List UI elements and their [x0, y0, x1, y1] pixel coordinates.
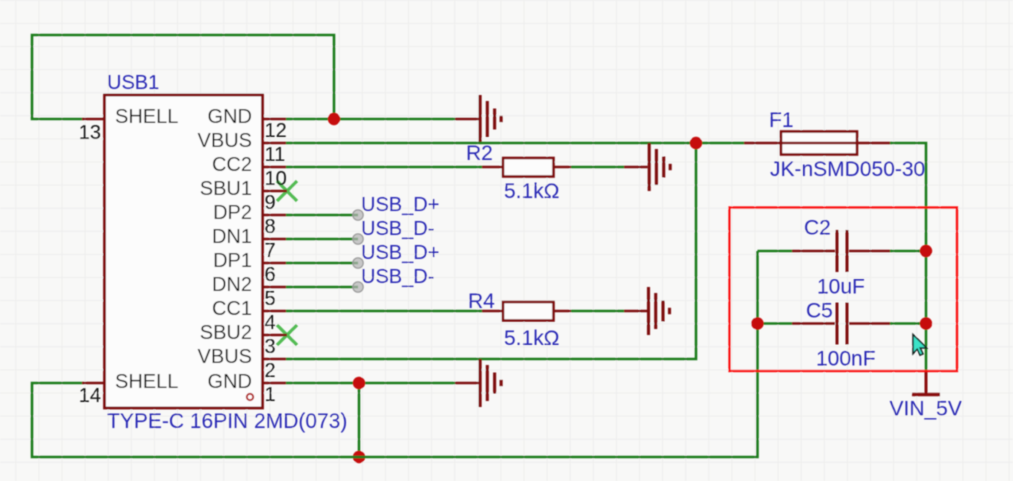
wire: pin10 CC2 to R2 — [286, 166, 482, 169]
svg-text:DP2: DP2 — [213, 202, 252, 224]
svg-text:USB_D-: USB_D- — [361, 266, 434, 288]
fuse F1 — [744, 132, 890, 155]
node junction on GND wire — [328, 113, 340, 125]
wire: pin4 CC1 to R4 — [286, 310, 482, 313]
wire: pin8 DP2 net USB_D+ — [286, 214, 358, 217]
pin1 polarity circle — [247, 394, 253, 400]
unconnected wire-end dot pin6 — [353, 258, 363, 268]
node junction C2 right — [920, 245, 932, 257]
wire: VBUS vertical down to pin2 — [286, 143, 696, 359]
svg-text:SBU2: SBU2 — [200, 322, 252, 344]
svg-text:GND: GND — [208, 106, 252, 128]
svg-text:CC1: CC1 — [212, 298, 252, 320]
no-connect X pin3 SBU2 — [277, 325, 297, 345]
svg-text:C2: C2 — [804, 217, 831, 240]
svg-text:9: 9 — [265, 192, 276, 214]
svg-text:JK-nSMD050-30: JK-nSMD050-30 — [770, 158, 925, 181]
node junction pin1 — [353, 377, 365, 389]
svg-text:10: 10 — [265, 168, 287, 190]
svg-text:3: 3 — [265, 336, 276, 358]
svg-text:VBUS: VBUS — [198, 346, 252, 368]
wire: pin14 SHELL bottom loop to cap rail — [32, 251, 758, 457]
svg-text:R2: R2 — [466, 142, 493, 165]
wire: R4 to ground — [571, 310, 624, 313]
svg-text:6: 6 — [265, 264, 276, 286]
wire: R2 to ground — [571, 166, 624, 169]
wire: pin5 DN2 net USB_D- — [286, 286, 358, 289]
svg-text:SBU1: SBU1 — [200, 178, 252, 200]
wire: pin7 DN1 net USB_D- — [286, 238, 358, 241]
svg-text:11: 11 — [265, 144, 286, 166]
mouse cursor — [913, 335, 927, 356]
svg-text:CC2: CC2 — [212, 154, 252, 176]
power flag VIN_5V — [912, 371, 940, 395]
svg-text:12: 12 — [265, 120, 287, 142]
no-connect X pin9 SBU1 — [277, 181, 297, 201]
pin 13 stub — [82, 118, 105, 121]
resistor R4 — [482, 302, 571, 321]
svg-text:USB_D+: USB_D+ — [361, 242, 439, 264]
wire: pin6 DP1 net USB_D+ — [286, 262, 358, 265]
ground (pin1 GND) — [455, 359, 501, 407]
svg-text:TYPE-C 16PIN 2MD(073): TYPE-C 16PIN 2MD(073) — [107, 410, 347, 433]
svg-text:VIN_5V: VIN_5V — [890, 398, 962, 421]
svg-text:13: 13 — [79, 122, 101, 144]
svg-text:SHELL: SHELL — [115, 106, 178, 128]
component USB1 body — [105, 95, 263, 408]
svg-text:5.1kΩ: 5.1kΩ — [504, 180, 559, 203]
left pin numbers — [79, 122, 101, 407]
svg-text:DP1: DP1 — [213, 250, 252, 272]
ground (pin12 GND) — [455, 95, 501, 143]
wire: pin1 GND to ground — [286, 382, 455, 385]
wire: pin13 SHELL top loop to GND net — [32, 35, 334, 119]
svg-text:DN2: DN2 — [212, 274, 252, 296]
unconnected wire-end dot pin7 — [353, 234, 363, 244]
svg-text:SHELL: SHELL — [115, 371, 178, 393]
selection rectangle — [730, 208, 958, 372]
right pin stubs 12..1 — [263, 119, 288, 383]
svg-text:4: 4 — [265, 312, 276, 334]
node junction C5 right — [920, 317, 932, 329]
svg-text:F1: F1 — [769, 109, 794, 132]
svg-text:7: 7 — [265, 240, 276, 262]
svg-text:R4: R4 — [468, 290, 495, 313]
svg-text:1: 1 — [265, 384, 276, 406]
svg-text:5: 5 — [265, 288, 276, 310]
svg-text:2: 2 — [265, 360, 276, 382]
svg-text:USB_D+: USB_D+ — [361, 194, 439, 216]
svg-text:100nF: 100nF — [816, 348, 876, 371]
node junction bottom rail — [353, 451, 365, 463]
svg-text:C5: C5 — [806, 300, 833, 323]
wire: F1 to right rail — [890, 143, 926, 371]
capacitor C5 — [758, 322, 793, 325]
node junction C5 left — [751, 317, 763, 329]
svg-text:GND: GND — [208, 371, 252, 393]
svg-text:VBUS: VBUS — [198, 130, 252, 152]
right pin numbers — [265, 120, 287, 406]
pin 14 stub — [82, 382, 105, 385]
wire: pin11 VBUS to F1 — [286, 142, 744, 145]
ground (R2) — [624, 143, 670, 191]
svg-text:8: 8 — [265, 216, 276, 238]
svg-text:USB_D-: USB_D- — [361, 218, 434, 240]
svg-text:10uF: 10uF — [817, 276, 865, 299]
svg-text:USB1: USB1 — [107, 72, 159, 94]
unconnected wire-end dot pin5 — [353, 282, 363, 292]
node junction VBUS — [690, 137, 702, 149]
wire: pin12 GND to ground — [286, 118, 455, 121]
capacitor C2 — [758, 250, 793, 253]
right pin names — [198, 106, 252, 393]
resistor R2 — [482, 158, 571, 177]
ground (R4) — [624, 287, 670, 335]
svg-text:DN1: DN1 — [212, 226, 252, 248]
wire: pin1 junction down to bottom rail — [358, 383, 361, 457]
svg-text:5.1kΩ: 5.1kΩ — [504, 327, 559, 350]
unconnected wire-end dot pin8 — [353, 210, 363, 220]
svg-text:14: 14 — [79, 385, 101, 407]
